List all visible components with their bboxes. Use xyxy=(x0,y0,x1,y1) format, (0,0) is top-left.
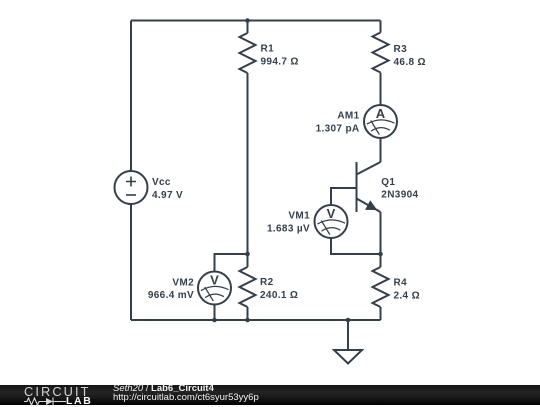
footer bar xyxy=(0,385,540,406)
wire bottom rail xyxy=(131,319,381,321)
voltmeter VM2 xyxy=(198,272,231,305)
wire left rail upper (Vcc top lead) xyxy=(130,21,132,172)
ammeter AM1 xyxy=(364,105,397,138)
svg-text:4.97 V: 4.97 V xyxy=(152,190,183,201)
svg-text:A: A xyxy=(376,106,386,121)
svg-text:Vcc: Vcc xyxy=(152,177,171,188)
node dot emitter/VM1/R4 xyxy=(378,252,383,257)
wire R2 top lead xyxy=(247,254,249,267)
svg-text:R3: R3 xyxy=(394,44,408,55)
resistor R2 xyxy=(240,267,256,307)
transistor Q1 xyxy=(357,162,381,212)
svg-text:1.307 pA: 1.307 pA xyxy=(316,123,360,134)
resistor R4 xyxy=(373,267,389,307)
ground xyxy=(334,320,362,364)
svg-text:VM1: VM1 xyxy=(288,211,310,222)
wire VM2 bottom lead xyxy=(214,305,216,321)
svg-text:R1: R1 xyxy=(261,44,275,55)
node dot ground xyxy=(346,318,351,323)
svg-text:AM1: AM1 xyxy=(337,110,359,121)
wire R2 bottom lead xyxy=(247,307,249,320)
wire Q1 emitter lead xyxy=(380,212,382,254)
node dot R2 bottom xyxy=(245,318,250,323)
svg-text:994.7 Ω: 994.7 Ω xyxy=(261,57,299,68)
svg-text:V: V xyxy=(210,273,219,288)
wire R4 bottom lead xyxy=(380,307,382,320)
node dot top R1 xyxy=(245,18,250,23)
svg-text:1.683 µV: 1.683 µV xyxy=(267,224,310,235)
svg-text:R4: R4 xyxy=(394,277,408,288)
svg-text:2N3904: 2N3904 xyxy=(381,190,418,201)
wire R3 top lead xyxy=(380,21,382,33)
svg-text:46.8 Ω: 46.8 Ω xyxy=(394,57,426,68)
wire R4 top lead xyxy=(380,254,382,267)
resistor R3 xyxy=(373,33,389,73)
svg-text:240.1 Ω: 240.1 Ω xyxy=(260,290,298,301)
wire R1 bottom to node xyxy=(247,73,249,254)
svg-text:Q1: Q1 xyxy=(381,177,395,188)
svg-text:VM2: VM2 xyxy=(172,277,194,288)
svg-text:966.4 mV: 966.4 mV xyxy=(148,290,194,301)
wire left rail lower (Vcc bottom lead) xyxy=(130,204,132,320)
wire R1 top lead xyxy=(247,21,249,34)
svg-text:R2: R2 xyxy=(260,277,274,288)
svg-text:V: V xyxy=(327,206,336,221)
wire VM1 bottom to emitter node xyxy=(331,238,381,254)
voltmeter VM1 xyxy=(315,205,348,238)
svg-text:2.4 Ω: 2.4 Ω xyxy=(394,290,420,301)
footer title text xyxy=(113,384,214,394)
CircuitLab logo xyxy=(24,386,91,397)
wire AM1 to Q1 collector xyxy=(380,138,382,162)
node dot VM2 bottom xyxy=(212,318,217,323)
wire Q1 base to VM1 xyxy=(331,188,357,205)
wire R3 to AM1 xyxy=(380,73,382,106)
wire node to VM2 top xyxy=(215,254,248,272)
wire top rail xyxy=(131,20,381,22)
node dot R1/VM2/R2 xyxy=(245,252,250,257)
resistor R1 xyxy=(240,33,256,73)
voltage source Vcc xyxy=(115,171,148,204)
